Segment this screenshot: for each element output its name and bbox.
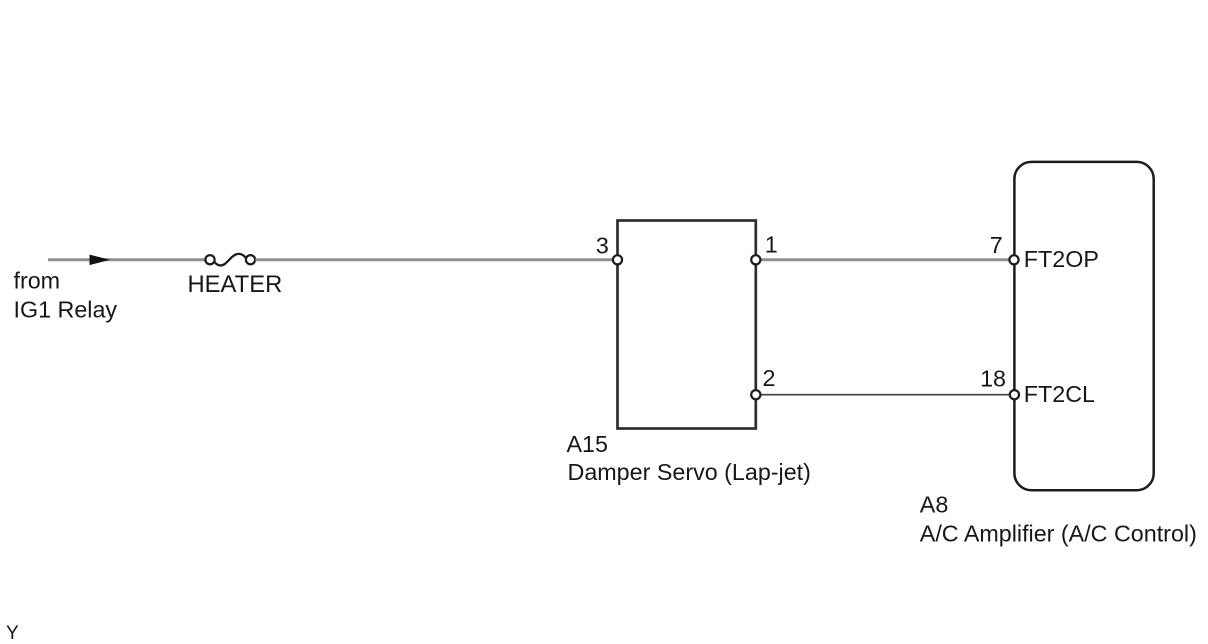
svg-text:from: from (14, 268, 61, 294)
svg-text:2: 2 (763, 365, 776, 391)
fuse HEATER: left terminal circle (205, 255, 214, 264)
svg-text:A8: A8 (920, 492, 949, 518)
component A15 box (618, 221, 756, 429)
svg-text:FT2OP: FT2OP (1024, 246, 1099, 272)
wire fuse to A15 pin 3 (256, 258, 618, 261)
svg-text:HEATER: HEATER (188, 271, 283, 298)
fuse HEATER: wavy element (214, 254, 246, 266)
svg-text:Y: Y (6, 623, 19, 644)
pin 2 terminal circle of A15 (751, 390, 760, 399)
wire from IG1 Relay to fuse (48, 258, 206, 261)
svg-text:FT2CL: FT2CL (1024, 381, 1095, 407)
svg-text:1: 1 (765, 232, 778, 258)
svg-text:18: 18 (980, 365, 1006, 391)
svg-text:Damper Servo (Lap-jet): Damper Servo (Lap-jet) (568, 459, 811, 485)
svg-text:A/C Amplifier (A/C Control): A/C Amplifier (A/C Control) (920, 521, 1197, 547)
pin 3 terminal circle of A15 (613, 255, 622, 264)
arrowhead on feed wire (90, 255, 111, 266)
svg-text:3: 3 (596, 233, 609, 259)
fuse HEATER: right terminal circle (246, 255, 255, 264)
pin 18 terminal circle of A8 (1010, 390, 1019, 399)
pin 7 terminal circle of A8 (1009, 255, 1018, 264)
svg-text:IG1 Relay: IG1 Relay (14, 296, 118, 322)
wire A15 pin2 to A8 pin18 (756, 394, 1014, 396)
component A8 rounded box (A/C Amplifier) (1014, 162, 1153, 490)
svg-text:A15: A15 (567, 431, 608, 457)
wire A15 pin1 to A8 pin7 (756, 258, 1014, 261)
svg-text:7: 7 (990, 232, 1003, 258)
pin 1 terminal circle of A15 (751, 255, 760, 264)
